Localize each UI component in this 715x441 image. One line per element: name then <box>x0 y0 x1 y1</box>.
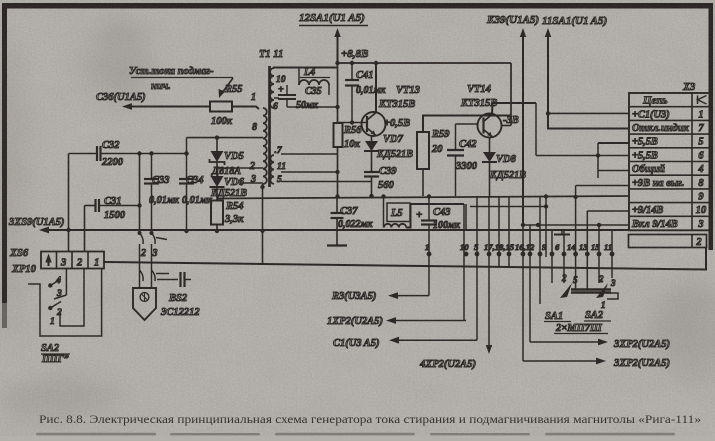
wire row7 from 11SA1 corner <box>548 33 629 129</box>
wire C42 bottom to line T <box>455 156 457 197</box>
wire R56 bottom to line T <box>337 147 339 197</box>
transformer core <box>268 66 271 187</box>
frame right border <box>709 3 714 250</box>
wire x477 down to C1 arrow <box>476 196 478 340</box>
wire C35/L4 right to +8.8 vertical <box>287 106 338 108</box>
wire C39 down to line T <box>371 177 373 197</box>
diode VD8 KD521V <box>489 138 491 153</box>
diode VD7 KD521V <box>371 136 373 141</box>
capacitor C42 3300 <box>455 124 457 150</box>
wire row3 <box>523 224 629 226</box>
wire VT13 base <box>338 122 367 124</box>
coupling capacitor to BS2 <box>157 279 178 281</box>
frame top border <box>2 3 713 9</box>
wire VD6 to R54 / line T start <box>216 188 218 201</box>
erase head BS2 3S12212 <box>133 288 156 320</box>
wire x552 to SA1 <box>551 231 553 280</box>
inductor L5 <box>387 203 410 222</box>
wire x575 from row8 <box>575 186 577 291</box>
SA2 switch contacts below XP10 <box>65 269 67 296</box>
wire C31 left to XS6 pin2 <box>85 205 96 207</box>
wire T1 pin10 to +8.8 rail <box>274 67 338 70</box>
wire tap8 to VD5 and C34 node <box>187 137 264 139</box>
wire row10 <box>587 210 629 212</box>
line B lower bus <box>104 248 706 270</box>
wire 11SA1 vertical with up arrow <box>547 34 549 129</box>
wire pin5 to C39 node <box>281 181 372 183</box>
wire R59 bottom to line T <box>422 169 424 196</box>
zener VD5 D818A <box>216 138 218 151</box>
wire pin6 to C35 <box>274 97 279 99</box>
wire C33 down to line A <box>151 184 153 234</box>
chassis tap on line A <box>561 231 563 234</box>
transistor switch SA2 <box>596 283 608 298</box>
wire VD8 to line T <box>489 163 491 197</box>
wire C31 right to node <box>99 205 140 207</box>
wire K39 vertical lower part <box>522 225 524 361</box>
connector XS6 box <box>41 252 104 269</box>
wire +8.8 vertical down to R56 <box>337 63 339 123</box>
wire K39 vertical with up arrow <box>522 34 524 225</box>
capacitor C37 0.022mk <box>336 197 338 214</box>
wire R55 to T1 pin 1 <box>232 107 259 110</box>
resistor R59 20 <box>417 132 429 169</box>
net 3XP2(U2A5) arrow 2 <box>522 360 524 362</box>
wire row1 from 11SA1 <box>548 112 629 114</box>
T1 right winding upper (pins 10-6) <box>270 68 274 108</box>
diode VD6 KD521V <box>216 163 218 177</box>
wire x466 down to 1XP2 corner <box>465 204 467 231</box>
wire tap3 <box>240 182 263 184</box>
cut-off next text line at bottom edge <box>36 433 675 436</box>
resistor R56 10k <box>334 123 343 147</box>
wire R54 to line A <box>216 225 218 232</box>
contact 2-3 on BS2 wires <box>138 231 142 235</box>
wire VT14 collector up <box>492 103 536 115</box>
wire corner for 3XP2 arrow1 <box>529 341 531 343</box>
wire x530 down to 3XP2 arrow1 <box>529 225 531 342</box>
capacitor C39 560 <box>364 171 379 173</box>
wire tap2 to VD5-VD6 junction <box>217 167 263 169</box>
wire x587 from row10 <box>586 211 588 290</box>
wire row5 <box>598 142 629 144</box>
wire row6 from VT14 collector branch <box>535 103 537 156</box>
SA1-SA2 collector bars <box>571 288 611 290</box>
wire x489 down to 4XP2 arrow <box>488 196 490 348</box>
wire/arrow C36 to R55 <box>128 106 210 108</box>
XS6 cell arrow symbol <box>48 260 50 267</box>
wire C43 down to R3 arrow <box>428 225 430 296</box>
trimmer arrow into R55 <box>222 78 233 93</box>
wire row8 <box>576 185 629 187</box>
wire x546 <box>545 197 547 258</box>
wire 12SA1 vertical with up arrow <box>337 34 339 63</box>
wire +8.8 right edge vertical <box>510 63 512 126</box>
wire pin11 to vertical 337 <box>281 171 338 173</box>
wire x540 <box>539 196 541 304</box>
wire x464 down to 1XP2 arrow <box>463 204 465 321</box>
wire x499 <box>498 196 500 266</box>
wire R59 top to +8.8 branch <box>423 116 511 133</box>
wire T1 left winding bottom down to line B <box>262 184 264 263</box>
wire L4 left <box>298 68 300 86</box>
line T mid bus <box>217 196 629 199</box>
T1 right winding lower (pins 7-11-5) <box>270 155 274 184</box>
table row 2 offset box <box>629 235 707 248</box>
wire x509 <box>508 196 510 266</box>
frame left border <box>2 3 7 303</box>
wire C34 down to line A <box>186 184 188 232</box>
wire y206 branch <box>470 206 546 208</box>
wire VT13 collector up to rail <box>375 63 378 113</box>
resistor R54 3.3k <box>211 201 223 225</box>
wires down to BS2 head <box>139 244 141 288</box>
wire VT14 emitter right -3V <box>502 125 512 127</box>
wire VD7 to C39 <box>371 152 373 173</box>
wire C32 right <box>101 153 187 155</box>
wire row4 <box>598 170 629 172</box>
bus contact dots row <box>427 252 432 257</box>
lower contact pair <box>140 270 156 281</box>
wire x564 to SA1 <box>563 231 565 283</box>
wire VT14 base <box>456 123 478 125</box>
wire C32 left to XS6 pin3 <box>69 153 98 155</box>
T1 left winding (pins 1-8-2-3) <box>263 108 267 184</box>
wire L5 right up and over <box>406 204 464 228</box>
transistor switch SA1 <box>560 283 572 298</box>
wire x599 to SA2 <box>598 225 600 283</box>
net 3XP2(U2A5) arrow 1 <box>530 341 602 343</box>
wire row5/row4 vertical <box>597 143 599 178</box>
wire x612 to SA2 <box>611 231 613 278</box>
wire node C32 down to BS2 <box>139 154 141 234</box>
wire pin7 to R56 bottom node <box>281 153 338 155</box>
